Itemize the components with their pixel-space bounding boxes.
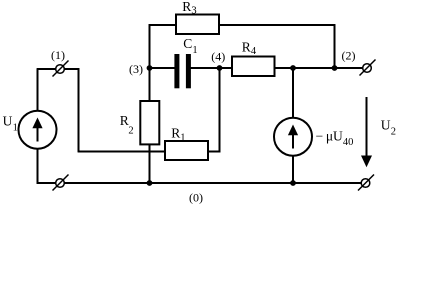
resistor R4 [232, 57, 275, 77]
svg-text:1: 1 [13, 123, 18, 134]
junction dot at current source top [290, 65, 296, 71]
junction dot bottom rail below current source [290, 180, 296, 186]
terminal (2) [360, 60, 376, 76]
wire R4 right to terminal (2) [275, 67, 363, 69]
wire bottom rail [64, 182, 361, 184]
wire R3 branch vertical down to output row [334, 24, 336, 69]
wire vertical from terminal (1) corner down [78, 68, 80, 152]
wire terminal (1) to corner [64, 68, 79, 70]
wire node (4) to R4 [220, 67, 233, 69]
wire C1 to node (4) [191, 67, 220, 69]
wire R3 right horizontal [219, 24, 335, 26]
wire U1 bottom vertical [37, 149, 39, 184]
wire current source top [292, 68, 294, 118]
wire node (3) vertical (R3 branch down through node to R2) [149, 24, 151, 101]
svg-text:U: U [381, 118, 391, 133]
wire node (4) vertical down to R1 [219, 68, 221, 152]
wire R3 left horizontal [149, 24, 177, 26]
terminal (0) right [358, 175, 374, 191]
wire R2 bottom down to bottom rail [149, 144, 151, 183]
wire horizontal to R1 left [78, 151, 165, 153]
svg-text:2: 2 [391, 127, 396, 138]
wire top-left horizontal to terminal (1) [37, 68, 56, 70]
wire current source bottom [292, 156, 294, 184]
terminal (1) [53, 61, 69, 77]
svg-text:2: 2 [128, 126, 133, 137]
wire bottom rail left to terminal (0) [37, 182, 56, 184]
resistor R3 [176, 15, 219, 35]
svg-text:(4): (4) [211, 50, 225, 64]
svg-text:(0): (0) [189, 191, 203, 205]
junction dot at R3 branch [332, 65, 338, 71]
voltage source U1 [19, 111, 57, 149]
wire U1 top vertical [37, 69, 39, 111]
wire node (3) to C1 [150, 67, 176, 69]
resistor R2 [140, 101, 159, 144]
svg-text:U: U [3, 114, 13, 129]
terminal (0) left [53, 175, 69, 191]
wire R1 right to node (4) column [208, 151, 220, 153]
node (4) junction dot [217, 65, 223, 71]
resistor R1 [165, 141, 208, 160]
svg-text:(1): (1) [51, 48, 65, 62]
controlled current source -muU40 [274, 118, 312, 156]
node (3) junction dot [147, 65, 153, 71]
capacitor C1 [174, 54, 191, 88]
junction dot bottom rail below R2 [147, 180, 153, 186]
svg-text:(2): (2) [342, 49, 356, 63]
svg-text:(3): (3) [129, 62, 143, 76]
voltage arrow U2 [361, 97, 372, 167]
